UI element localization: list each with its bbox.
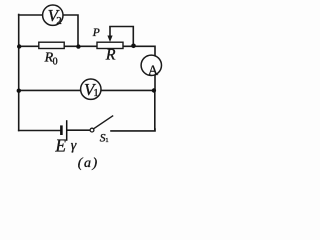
svg-text:0: 0 <box>53 56 58 67</box>
svg-text:1: 1 <box>105 137 108 144</box>
svg-text:E: E <box>54 135 66 155</box>
svg-text:A: A <box>148 63 159 79</box>
svg-text:1: 1 <box>93 87 99 99</box>
svg-text:(a): (a) <box>78 156 99 171</box>
svg-text:2: 2 <box>56 15 62 27</box>
svg-text:γ: γ <box>71 139 77 154</box>
svg-text:P: P <box>92 27 100 39</box>
svg-text:R: R <box>105 47 116 64</box>
